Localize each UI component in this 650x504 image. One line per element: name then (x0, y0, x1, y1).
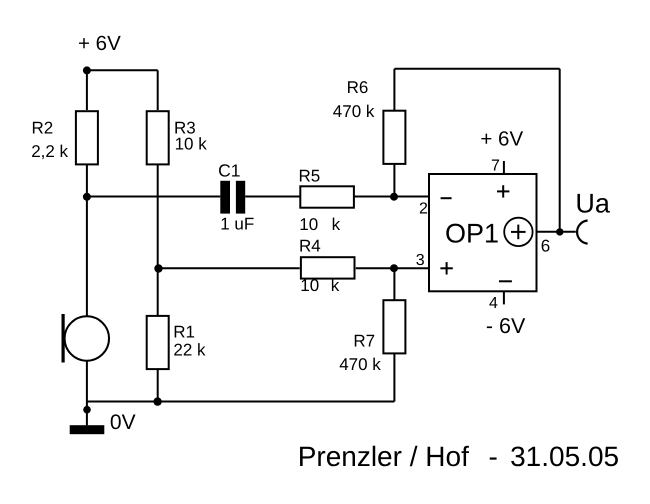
op-amp V+ plus sign (497, 185, 509, 197)
wire op-amp output (537, 231, 576, 233)
power label + 6V (78, 32, 121, 55)
pin 4 label (489, 295, 498, 312)
svg-text:3: 3 (416, 252, 425, 269)
wire R7 top lead (393, 268, 395, 300)
resistor R5 (299, 167, 354, 234)
wire R1 bottom lead (157, 369, 159, 402)
node R4/R7/pin3 junction dot (390, 264, 398, 272)
node +6V junction dot (83, 66, 91, 74)
ground node dot (83, 406, 91, 414)
svg-text:+ 6V: + 6V (480, 128, 523, 151)
wire feedback top horizontal (394, 68, 559, 70)
svg-text:22 k: 22 k (173, 341, 206, 360)
svg-text:R2: R2 (32, 118, 54, 137)
node output junction dot (556, 228, 563, 235)
svg-text:+ 6V: + 6V (78, 32, 121, 55)
wire C1 to R5 (245, 196, 299, 198)
svg-text:470 k: 470 k (339, 355, 381, 374)
wire R6 top lead (393, 69, 395, 111)
node R1/ground rail junction dot (153, 397, 161, 405)
node R3/R1/R4 junction dot (154, 264, 162, 272)
svg-text:1 uF: 1 uF (220, 215, 254, 234)
ground bar (70, 425, 105, 434)
op-amp OP1 body (429, 174, 537, 291)
op-amp inverting input minus sign (441, 197, 452, 199)
resistor R3 (147, 111, 208, 164)
svg-text:10: 10 (300, 276, 319, 295)
microphone MIC1 (62, 197, 110, 425)
resistor R4 (299, 237, 355, 295)
title date 31.05.05 (510, 441, 619, 472)
wire R6 bottom lead (393, 164, 395, 197)
resistor R2 (31, 111, 98, 164)
resistor R1 (147, 316, 206, 369)
label Ua (575, 188, 610, 218)
wire R5 to op-amp pin 2 (355, 196, 429, 198)
svg-text:470 k: 470 k (333, 102, 375, 121)
resistor R6 (333, 78, 406, 164)
svg-text:10: 10 (299, 215, 318, 234)
op-amp output circle with plus (504, 218, 532, 246)
svg-text:-: - (489, 441, 498, 472)
svg-text:k: k (331, 276, 340, 295)
wire +6V down to R2 (86, 70, 88, 110)
svg-text:Prenzler / Hof: Prenzler / Hof (298, 441, 469, 472)
wire +6V down to R3 (157, 70, 159, 110)
pin 6 label (541, 236, 550, 255)
svg-text:R7: R7 (353, 332, 375, 351)
svg-text:6: 6 (541, 236, 550, 255)
wire node to R4 (159, 267, 300, 269)
svg-text:- 6V: - 6V (486, 314, 526, 338)
capacitor C1 (218, 160, 254, 233)
svg-text:0V: 0V (110, 411, 136, 434)
pin 7 stub (503, 161, 505, 174)
node R5/R6/pin2 junction dot (390, 193, 398, 201)
svg-text:31.05.05: 31.05.05 (510, 441, 619, 472)
op-amp non-inverting input plus sign (440, 262, 452, 274)
resistor R7 (339, 300, 405, 374)
svg-text:10 k: 10 k (175, 134, 208, 153)
op-amp V- minus sign (499, 280, 512, 282)
ground label 0V (110, 411, 136, 434)
wire ground rail (87, 401, 395, 403)
wire R4 to op-amp pin 3 (356, 267, 429, 269)
svg-text:R1: R1 (173, 323, 195, 342)
title dash (489, 441, 498, 472)
svg-text:OP1: OP1 (445, 219, 499, 249)
power label - 6V at op-amp (486, 314, 526, 338)
wire +6V rail horizontal (87, 69, 158, 71)
wire R2 bottom to node (86, 164, 88, 197)
wire feedback down to output node (559, 69, 561, 232)
wire R3 bottom to R4 node (157, 164, 159, 269)
svg-text:2,2 k: 2,2 k (31, 142, 68, 161)
svg-text:R5: R5 (299, 167, 321, 186)
svg-text:4: 4 (489, 295, 498, 312)
wire R7 bottom lead (393, 353, 395, 402)
pin 4 stub (503, 291, 505, 304)
title text Prenzler / Hof (298, 441, 469, 472)
svg-text:2: 2 (419, 200, 428, 217)
pin 3 label (416, 252, 425, 269)
svg-text:R4: R4 (299, 237, 321, 256)
svg-text:R6: R6 (347, 78, 369, 97)
svg-text:Ua: Ua (575, 188, 610, 218)
pin 2 label (419, 200, 428, 217)
node R2/C1/mic junction dot (83, 193, 91, 201)
svg-text:7: 7 (491, 157, 500, 174)
power label + 6V at op-amp (480, 128, 523, 151)
wire node to C1 (87, 196, 220, 198)
connector Ua arc (577, 221, 588, 244)
wire R1 top lead (157, 269, 159, 317)
pin 7 label (491, 157, 500, 174)
svg-text:C1: C1 (218, 160, 240, 180)
svg-text:k: k (332, 215, 341, 234)
